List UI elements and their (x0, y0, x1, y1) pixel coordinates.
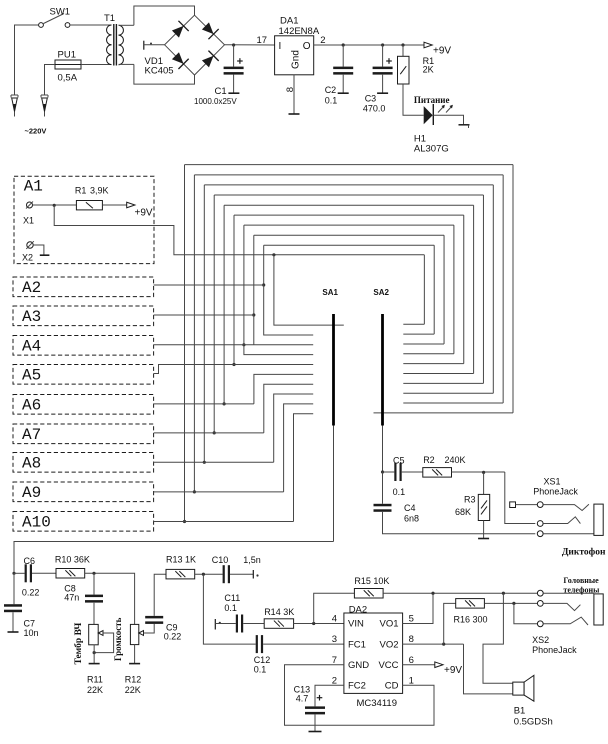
block A6 box (13, 395, 154, 415)
block A8 box (13, 453, 154, 473)
resistor R13 1K (166, 569, 195, 579)
svg-text:1: 1 (409, 675, 414, 686)
svg-text:A6: A6 (22, 397, 41, 415)
node A10-v1 (183, 520, 186, 523)
C10 open stub (230, 573, 253, 575)
regulator DA1 (275, 36, 314, 75)
capacitor C5 (383, 471, 395, 473)
ground R3 (483, 521, 485, 539)
svg-text:10n: 10n (24, 628, 39, 638)
wire mains left (15, 25, 39, 95)
svg-text:Питание: Питание (414, 95, 450, 105)
svg-text:+9V: +9V (444, 665, 462, 676)
svg-text:CD: CD (385, 681, 399, 692)
svg-text:0.22: 0.22 (164, 631, 182, 641)
svg-text:17: 17 (257, 35, 268, 46)
svg-text:телефоны: телефоны (563, 586, 600, 595)
wire loop9 bottom edge to SA2 (403, 333, 434, 335)
block A5 box (13, 365, 154, 385)
fuse PU1 (55, 60, 81, 69)
svg-text:R12: R12 (125, 675, 142, 685)
wire loop6 left vertical (233, 215, 235, 364)
wire VCC to +9V (403, 664, 435, 666)
svg-text:VIN: VIN (348, 619, 364, 630)
jack XS1 sleeve to body (543, 533, 594, 535)
svg-text:FC1: FC1 (348, 639, 366, 650)
svg-text:7: 7 (332, 655, 337, 666)
wire A5 out with jog to SA1 contact 5 (154, 365, 314, 374)
svg-text:X2: X2 (22, 252, 33, 262)
node A1 (53, 204, 56, 207)
mains plug pin right (40, 95, 42, 98)
node R13-C10 (202, 573, 205, 576)
svg-text:R13 1K: R13 1K (166, 554, 196, 564)
svg-text:VCC: VCC (378, 660, 398, 671)
node R1 (401, 43, 404, 46)
resistor R10 36K (56, 569, 85, 579)
svg-text:DA1: DA1 (280, 16, 298, 27)
resistor R14 3K (264, 619, 293, 629)
node R10-C8 (92, 572, 95, 575)
svg-text:C11: C11 (224, 593, 240, 603)
svg-text:FC2: FC2 (348, 681, 366, 692)
wire loop6 right vertical (463, 215, 465, 364)
svg-text:VO1: VO1 (379, 619, 398, 630)
svg-text:68K: 68K (455, 507, 471, 517)
wire DA1 output rail (314, 44, 424, 46)
svg-text:R15 10K: R15 10K (354, 576, 389, 586)
node VO1 (431, 592, 434, 595)
svg-text:A4: A4 (22, 338, 41, 356)
block A9 box (13, 482, 154, 502)
trimmer R11 22K (89, 624, 99, 644)
wire loop8 left vertical (253, 235, 255, 315)
wire loop2 right vertical (502, 175, 504, 403)
block A7 box (13, 424, 154, 444)
wire XS2 top to body (543, 592, 594, 594)
wire R15 to XS2 top (383, 592, 537, 594)
wire loop7 top edge (A4) (244, 224, 454, 226)
block A2 box (13, 277, 154, 297)
wire loop7 left vertical (243, 225, 245, 345)
connector X1 (27, 202, 33, 208)
wire A6 riser to SA1 contact 6 (254, 374, 313, 404)
svg-text:Громкость: Громкость (113, 617, 123, 661)
svg-text:X1: X1 (23, 215, 34, 225)
node A5-v6 (232, 363, 235, 366)
wire A1 feed (54, 205, 424, 255)
wire loop3 right vertical (492, 185, 494, 393)
wire VO1 riser (403, 593, 433, 623)
node pin4-R15 (312, 622, 315, 625)
mains plug pin X left (10, 95, 12, 98)
+9V arrow A1 (127, 202, 135, 208)
jack XS1 body (594, 504, 603, 535)
wire T1 secondary top (119, 24, 134, 26)
wire C5 to R2 (402, 471, 423, 473)
svg-text:+9V: +9V (135, 208, 153, 219)
switch SA2 stem (382, 426, 384, 473)
wire R11 wiper loop (94, 633, 113, 653)
wire loop3 left vertical (203, 185, 205, 462)
wire R11 to ground (93, 645, 95, 664)
svg-text:T1: T1 (104, 13, 115, 24)
svg-text:C6: C6 (24, 556, 36, 566)
wire R16 to XS2 mid (484, 602, 537, 604)
svg-text:Головные: Головные (563, 576, 599, 585)
svg-text:~220V: ~220V (25, 127, 47, 136)
svg-text:C4: C4 (404, 503, 416, 513)
wire loop9 left vertical (263, 245, 265, 285)
wire VO2 line (403, 643, 464, 645)
wire v7 to SA1 contact 4 (244, 345, 313, 355)
wire SW1 to T1 (70, 24, 112, 26)
+9V arrow main (424, 42, 432, 48)
wire R12 wiper to C9 (144, 624, 155, 633)
jack XS1 tip spring (543, 504, 589, 510)
jack XS2 bottom spring (543, 617, 588, 625)
svg-text:A3: A3 (22, 308, 41, 326)
node SA2-C5-C4 (381, 470, 384, 473)
wire loop9 top edge (A2) (264, 244, 435, 246)
svg-text:470.0: 470.0 (363, 103, 386, 113)
block A1 box (14, 176, 154, 263)
svg-text:0.1: 0.1 (325, 96, 338, 106)
block A4 box (13, 336, 154, 356)
svg-text:A5: A5 (22, 367, 41, 385)
svg-text:0.1: 0.1 (224, 603, 237, 613)
svg-text:0.22: 0.22 (22, 588, 40, 598)
wire loop10 right vertical (423, 255, 425, 324)
bridge diamond (165, 15, 225, 75)
wire loop8 right vertical (443, 235, 445, 344)
node A8-v3 (203, 461, 206, 464)
svg-text:0.1: 0.1 (254, 664, 267, 674)
node R2-R3 (482, 471, 485, 474)
node A6-v5 (223, 402, 226, 405)
C11 open stub (214, 619, 216, 630)
wire loop5 left vertical (223, 205, 225, 404)
LED arrows (438, 106, 445, 113)
svg-text:4: 4 (332, 614, 337, 625)
wire X1 to R1 (33, 204, 77, 206)
wire plug to fuse (45, 65, 56, 96)
wire R15 feedback riser (314, 593, 355, 623)
wire A6 out (154, 403, 254, 405)
wire v8 to SA1 contact 3 (253, 315, 255, 345)
wire loop1 top edge (A10) (185, 164, 514, 166)
wire loop8 top edge (A3) (254, 234, 444, 236)
diode top-right (200, 21, 218, 39)
svg-text:+9V: +9V (433, 45, 451, 56)
svg-text:A10: A10 (22, 514, 51, 532)
svg-text:C3: C3 (365, 93, 377, 103)
node C2 (342, 43, 345, 46)
capacitor C2 (342, 45, 344, 67)
wire A9 riser to SA1 contact 9 (284, 404, 314, 492)
ground C13 (314, 714, 316, 731)
svg-text:XS1: XS1 (544, 476, 561, 486)
switch SA1 stem (333, 426, 335, 542)
svg-text:R3: R3 (464, 494, 476, 504)
node A3-v8 (252, 313, 255, 316)
svg-text:8: 8 (285, 87, 296, 92)
wire loop4 left vertical (213, 195, 215, 433)
wire loop6 bottom edge to SA2 (403, 363, 463, 365)
node C1 (232, 43, 235, 46)
svg-text:SA1: SA1 (322, 288, 338, 297)
resistor R3 68K (483, 472, 485, 494)
capacitor C9 (145, 616, 163, 619)
wire loop1 bottom edge to SA2 (374, 412, 514, 414)
svg-text:Gnd: Gnd (291, 50, 302, 69)
svg-text:R14 3K: R14 3K (264, 607, 294, 617)
switch SA2 bar (381, 314, 384, 426)
svg-text:DA2: DA2 (349, 605, 367, 616)
svg-text:2K: 2K (423, 65, 434, 75)
wire R2 to node (452, 471, 505, 473)
block A3 box (13, 306, 154, 326)
capacitor C6 (14, 572, 25, 574)
capacitor C12 (256, 635, 258, 653)
svg-text:C7: C7 (24, 618, 36, 628)
wire R13 to C10 (195, 573, 223, 575)
wire A7 out (154, 432, 264, 434)
wire C9 to R13 (154, 574, 166, 616)
wire loop2 bottom edge to SA2 (403, 402, 503, 404)
wire loop7 right vertical (453, 225, 455, 354)
capacitor C10 (223, 565, 225, 583)
svg-text:5: 5 (409, 614, 414, 625)
wire C4 to jack sleeve (383, 512, 536, 534)
switch SA1 bar (332, 314, 335, 426)
svg-text:PU1: PU1 (58, 50, 76, 61)
jack XS1 ring spring (543, 517, 580, 524)
wire R13 node down to FC1 line (203, 574, 255, 644)
svg-text:22K: 22K (87, 685, 103, 695)
diode bottom-left (170, 51, 188, 69)
jack XS2 body (594, 594, 603, 625)
wire loop7 bottom edge to SA2 (403, 353, 454, 355)
wire loop3 bottom edge to SA2 (403, 392, 493, 394)
wire R12 to ground (134, 645, 136, 664)
wire loop5 right vertical (473, 205, 475, 373)
LED H1 (403, 84, 424, 115)
svg-text:0.1: 0.1 (393, 487, 406, 497)
svg-text:142EN8A: 142EN8A (279, 26, 320, 37)
trimmer R12 22K (130, 624, 138, 644)
svg-text:C2: C2 (325, 85, 337, 95)
wire R16 left riser (444, 603, 456, 644)
wire v9 to SA1 contact 2 (264, 285, 314, 335)
amplifier DA2 MC34119 (344, 613, 403, 693)
svg-text:R16 300: R16 300 (454, 615, 488, 625)
wire A2 out (154, 284, 264, 286)
speaker B1 (513, 682, 524, 695)
diode bottom-right (200, 51, 218, 69)
svg-text:VO2: VO2 (379, 639, 398, 650)
ground X2 (33, 245, 44, 255)
bridge rectifier VD1 envelope (134, 6, 195, 25)
svg-text:GND: GND (348, 660, 369, 671)
svg-text:1,5n: 1,5n (243, 555, 261, 565)
wire loop10 bottom edge to SA2 (403, 323, 424, 325)
jack XS2 mid spring (543, 603, 580, 610)
resistor R1 3,9K (76, 201, 102, 210)
wire C11 to R14 (243, 623, 264, 625)
svg-text:6: 6 (409, 655, 414, 666)
svg-text:R1: R1 (75, 186, 87, 196)
svg-text:KC405: KC405 (145, 66, 174, 77)
wire loop4 top edge (A7) (214, 194, 483, 196)
svg-text:Диктофон: Диктофон (562, 547, 606, 558)
svg-text:XS2: XS2 (532, 635, 549, 645)
wire R14 to DA2 VIN (294, 623, 344, 625)
svg-text:A2: A2 (22, 279, 41, 297)
wire C6 to R10 (32, 572, 56, 574)
svg-text:22K: 22K (125, 685, 141, 695)
svg-text:3,9K: 3,9K (90, 186, 109, 196)
node XS2 bridge (512, 602, 515, 605)
wire R10 to R12 top (85, 573, 135, 624)
wire T1 secondary bottom (119, 63, 134, 65)
wire SA1 to C6 node (14, 542, 334, 574)
resistor R2 240K (423, 468, 452, 478)
svg-text:R11: R11 (87, 675, 103, 685)
wire loop1 left vertical (184, 165, 186, 522)
svg-text:B1: B1 (514, 706, 526, 717)
wire A8 out (154, 461, 274, 463)
svg-text:C1: C1 (215, 86, 227, 97)
svg-text:6n8: 6n8 (404, 513, 419, 523)
switch SW1 (44, 14, 65, 24)
node A4-v7 (242, 343, 245, 346)
wire A4 out to SA1 contact 3 (154, 344, 314, 346)
wire fuse to T1 (81, 64, 112, 66)
wire loop6 top edge (A5) (234, 214, 464, 216)
wire loop4 right vertical (482, 195, 484, 383)
svg-text:A8: A8 (22, 455, 41, 473)
DA1 ground pin 8 (293, 75, 295, 114)
wire speaker feed upper (483, 593, 513, 683)
node A2-v9 (262, 283, 265, 286)
capacitor C3 (382, 45, 384, 67)
node A7-v4 (213, 431, 216, 434)
svg-text:8: 8 (409, 634, 414, 645)
resistor R15 10K (354, 589, 383, 599)
node A9-v2 (193, 490, 196, 493)
svg-text:R10 36K: R10 36K (55, 554, 90, 564)
wire A8 riser to SA1 contact 8 (274, 394, 314, 462)
svg-text:C10: C10 (212, 555, 229, 565)
wire GND pin7 rail (285, 665, 435, 726)
wire loop2 top edge (A9) (194, 174, 503, 176)
wire R2 node to jack ring (505, 472, 536, 524)
wire C8 to R11 (93, 603, 95, 625)
svg-text:2: 2 (320, 35, 325, 46)
resistor R1 2K (402, 45, 404, 56)
wire bridge to DA1 (225, 44, 275, 46)
svg-text:Тембр ВЧ: Тембр ВЧ (73, 623, 84, 665)
svg-text:PhoneJack: PhoneJack (533, 486, 578, 496)
svg-text:0,5A: 0,5A (58, 73, 78, 84)
svg-text:3: 3 (332, 634, 337, 645)
wire loop8 bottom edge to SA2 (403, 343, 444, 345)
wire speaker feed lower (464, 644, 513, 694)
block A10 box (13, 512, 154, 532)
ground C1 (228, 92, 239, 94)
svg-text:MC34119: MC34119 (357, 698, 398, 709)
capacitor C11 (236, 615, 238, 633)
wire A3 out (154, 314, 254, 316)
capacitor C1 (233, 45, 235, 67)
wire loop5 bottom edge to SA2 (403, 373, 473, 375)
diode top-left (170, 21, 188, 39)
svg-text:SW1: SW1 (50, 7, 71, 18)
svg-text:I: I (279, 41, 282, 52)
svg-text:R2: R2 (423, 455, 435, 465)
node R16 bottom (442, 643, 445, 646)
svg-text:A9: A9 (22, 484, 41, 502)
wire loop1 right vertical (512, 165, 514, 413)
node C6-C7 (12, 572, 15, 575)
capacitor C7 (13, 573, 15, 604)
node R11 bottom (93, 651, 96, 654)
svg-text:O: O (303, 41, 311, 52)
svg-text:SA2: SA2 (373, 288, 389, 297)
wire A9 out (154, 491, 284, 493)
svg-text:A7: A7 (22, 426, 41, 444)
svg-text:2: 2 (332, 675, 337, 686)
capacitor C13 (305, 706, 325, 709)
node C3 (381, 43, 384, 46)
svg-text:47n: 47n (64, 592, 79, 602)
svg-text:AL307G: AL307G (414, 143, 449, 154)
wire FC2 to C13 (315, 685, 344, 706)
wire v10 to SA1 wiper (274, 255, 344, 325)
node A1-v10 (272, 253, 275, 256)
svg-text:240K: 240K (445, 455, 466, 465)
wire A10 out (154, 521, 294, 523)
resistor R16 300 (456, 599, 485, 609)
wire A7 riser to SA1 contact 7 (264, 384, 313, 433)
svg-text:4.7: 4.7 (296, 694, 309, 704)
wire loop9 right vertical (433, 245, 435, 334)
svg-text:PhoneJack: PhoneJack (532, 645, 577, 655)
svg-text:C5: C5 (393, 455, 405, 465)
wire R1 to +9V (102, 204, 126, 206)
wire loop4 bottom edge to SA2 (403, 382, 483, 384)
wire C12 to DA2 FC1 (263, 643, 344, 645)
svg-text:0.5GDSh: 0.5GDSh (514, 717, 553, 728)
connector X2 (27, 242, 33, 248)
capacitor C8 (93, 573, 95, 594)
svg-text:A1: A1 (24, 178, 43, 196)
node speaker tap (502, 592, 505, 595)
wire A10 riser to SA1 contact 10 (294, 414, 314, 522)
ground C7 (12, 612, 14, 631)
wire loop2 left vertical (193, 175, 195, 492)
wire loop5 top edge (A6) (224, 204, 474, 206)
capacitor C4 (382, 472, 384, 504)
bridge minus stub (143, 41, 145, 50)
wire XS2 mid-to-bottom link (514, 603, 537, 623)
wire loop3 top edge (A8) (204, 184, 493, 186)
wire LED to ground (433, 115, 463, 124)
svg-text:1000.0x25V: 1000.0x25V (194, 97, 237, 106)
